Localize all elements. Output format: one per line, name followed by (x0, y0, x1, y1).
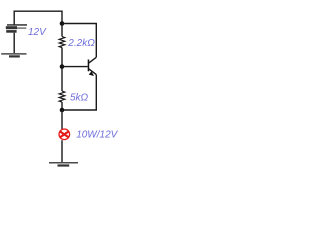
wire node A to collector (62, 24, 96, 58)
node A junction dot (60, 21, 65, 26)
wire top rail from battery to node A (14, 11, 62, 25)
wire node B down to resistor R2 (61, 67, 63, 91)
wire battery negative to ground (13, 33, 15, 54)
battery V1 plate 3 (thin gray) (17, 27, 26, 29)
transistor Q1 base bar (88, 60, 90, 72)
wire node A down to resistor R1 (61, 24, 63, 37)
battery V1 plate 4 (thick short) (6, 30, 16, 33)
node C junction dot (60, 108, 65, 113)
ground G1 long bar (1, 53, 26, 55)
ground G2 long bar (49, 162, 78, 164)
transistor Q1 emitter lead (89, 69, 97, 75)
battery V1 plate 2 (thick short) (6, 26, 17, 29)
wire R2 bottom to node C (61, 102, 63, 110)
resistor R1 zigzag 2.2k (59, 37, 65, 48)
svg-text:10W/12V: 10W/12V (76, 130, 118, 141)
wire lamp to ground G2 (61, 140, 63, 162)
wire R1 bottom to node B (61, 48, 63, 67)
ground G2 thick bar (58, 164, 70, 166)
svg-text:12V: 12V (28, 27, 47, 38)
transistor Q1 emitter arrow (89, 71, 94, 76)
transistor Q1 collector lead (89, 57, 97, 63)
node B junction dot (60, 64, 65, 69)
lamp L1 circle (59, 129, 70, 140)
wire node C down to lamp (61, 110, 63, 129)
ground G1 thick bar (9, 55, 20, 57)
lamp L1 cross (60, 132, 68, 138)
resistor R2 zigzag 5k (59, 91, 65, 102)
svg-text:2.2kΩ: 2.2kΩ (67, 38, 95, 49)
svg-text:5kΩ: 5kΩ (70, 93, 89, 104)
wire node B to transistor base (62, 66, 88, 68)
battery V1 plate 1 (thin long) (7, 24, 27, 26)
wire emitter down and across to node C (62, 75, 96, 110)
